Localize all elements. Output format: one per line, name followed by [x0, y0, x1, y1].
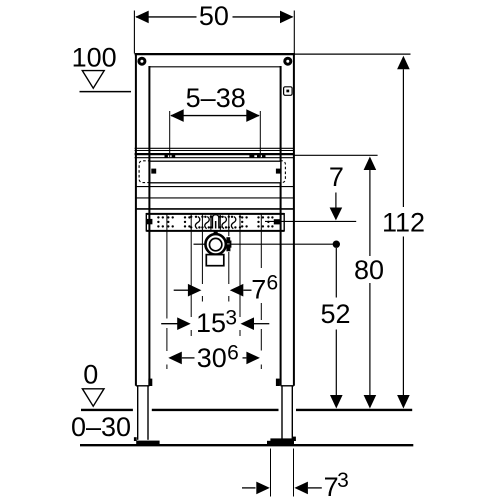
left foot plate — [136, 441, 159, 444]
drain trap outlet box — [206, 255, 224, 266]
dimension 7 arrow — [330, 193, 343, 221]
dimension 7-3 extension line left — [270, 449, 272, 497]
drain trap clamp — [226, 237, 231, 251]
dimension 7-3 arrows — [242, 482, 322, 495]
mounting plate bolt left — [147, 219, 153, 224]
crossbar line 3 — [136, 208, 295, 210]
extension line x191.2 — [190, 215, 192, 337]
dimension 80 line — [364, 157, 377, 409]
extension line x228.8 — [228, 215, 230, 302]
dimension 30-6 label — [197, 342, 239, 373]
floor line 0-30 — [80, 444, 413, 446]
dimension 7-3 extension line right — [293, 449, 295, 497]
svg-text:0: 0 — [83, 360, 98, 390]
crossbar line 1 — [136, 186, 295, 188]
mounting plate dividers — [211, 215, 220, 230]
mounting plate bolt right — [274, 219, 281, 224]
mounting plate — [146, 213, 284, 232]
drain trap inner ring — [209, 238, 221, 250]
dimension 15-3 label — [196, 306, 237, 338]
frame top bar bottom edge — [150, 66, 281, 68]
faucet rail dashed outline — [139, 161, 285, 183]
extension line x240 — [239, 215, 241, 337]
svg-text:7: 7 — [251, 274, 266, 304]
dimension 50 line — [135, 11, 293, 24]
faucet rail bolt left — [151, 169, 156, 174]
mounting plate hole clusters — [157, 216, 273, 227]
svg-text:6: 6 — [227, 342, 239, 365]
level 100 line — [80, 91, 132, 93]
corner screw left — [137, 57, 146, 66]
leg clamp right — [276, 379, 280, 386]
frame left rail — [136, 54, 150, 386]
dimension 7-6 — [174, 284, 252, 297]
drain trap outer ring — [205, 234, 225, 254]
dimension 5-38 extension line left — [169, 111, 171, 157]
dimension 30-6 — [168, 352, 260, 365]
svg-text:3: 3 — [225, 306, 237, 329]
dimension 7-3 label — [324, 469, 349, 500]
svg-text:7: 7 — [329, 162, 344, 192]
svg-text:15: 15 — [196, 308, 226, 338]
leg clamp left — [148, 379, 152, 386]
mounting plate slot ornaments — [195, 217, 235, 229]
extension line x202.4 — [201, 215, 203, 302]
svg-text:6: 6 — [267, 271, 279, 294]
drain centre line — [194, 243, 333, 245]
svg-text:3: 3 — [337, 469, 349, 492]
wall rail clamp right — [249, 153, 265, 157]
dimension 15-3 — [161, 317, 269, 330]
dimension 5-38 extension line right — [259, 111, 261, 157]
svg-text:5–38: 5–38 — [186, 83, 246, 113]
corner screw right — [283, 57, 292, 66]
right foot plate — [267, 441, 294, 445]
svg-text:100: 100 — [72, 42, 117, 72]
drain reference dot — [333, 241, 340, 248]
dimension 52 arrow — [330, 395, 343, 409]
svg-text:0–30: 0–30 — [71, 412, 131, 442]
frame right rail — [281, 54, 294, 386]
dimension 7-6 label — [251, 271, 278, 304]
rail bottom edge left — [136, 385, 150, 387]
extension line x261.3 — [260, 215, 262, 370]
dimension 50 extension line right — [293, 11, 295, 54]
extension line x166.9 — [166, 215, 168, 370]
faucet rail box — [150, 161, 281, 183]
right rail tag — [284, 87, 293, 96]
svg-text:50: 50 — [199, 1, 229, 31]
dimension 5-38 line — [170, 109, 260, 122]
left foot tube — [138, 386, 148, 440]
dimension 7 extension line — [265, 220, 356, 222]
wall rail lines — [135, 148, 295, 157]
dimension 80 extension line — [295, 154, 378, 156]
svg-text:80: 80 — [354, 255, 384, 285]
mounting plate centre bracket — [212, 215, 219, 234]
svg-text:30: 30 — [197, 343, 227, 373]
crossbar line 2 — [136, 197, 295, 199]
svg-text:112: 112 — [382, 208, 425, 238]
dimension 50 extension line left — [133, 11, 135, 54]
wall rail clamp left — [165, 153, 176, 157]
dimension 52 dot line — [335, 248, 337, 396]
level 0 triangle — [82, 389, 104, 406]
rail bottom edge right — [281, 385, 294, 387]
faucet rail bolt right — [276, 169, 281, 174]
floor line 0 — [81, 409, 412, 411]
frame top bar — [135, 53, 295, 55]
svg-text:52: 52 — [320, 299, 350, 329]
dimension 112 extension line — [295, 53, 411, 55]
right foot tube — [282, 386, 292, 440]
dimension 112 line — [397, 56, 410, 409]
level 100 triangle — [82, 71, 104, 89]
